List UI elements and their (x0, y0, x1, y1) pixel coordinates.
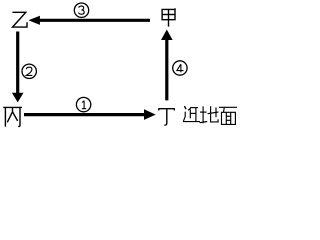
wire: bottom arrow shaft (丙 to 丁) (24, 113, 145, 116)
label circled 4 (173, 61, 187, 75)
arrowhead: top arrow pointing left (28, 16, 40, 25)
label 近地面 (near ground) : 近 (183, 106, 200, 122)
node 丙 (bottom-left) (3, 107, 22, 126)
node 乙 (top-left) (12, 12, 27, 27)
wire: top arrow shaft (甲 to 乙) (39, 19, 150, 22)
arrowhead: left arrow pointing down (12, 93, 24, 103)
wire: left arrow shaft (乙 to 丙) (16, 32, 19, 95)
wire: right arrow shaft (丁 to 甲) (165, 40, 168, 101)
label 近地面 : 地 (200, 106, 219, 123)
label circled 2 (22, 64, 36, 78)
label circled 1 (76, 97, 90, 111)
arrowhead: bottom arrow pointing right (144, 109, 156, 120)
arrowhead: right arrow pointing up (161, 30, 173, 41)
label circled 3 (74, 3, 88, 17)
node 甲 (top-right) (162, 8, 175, 26)
node 丁 (bottom-right) (158, 109, 175, 125)
label 近地面 : 面 (219, 107, 237, 124)
